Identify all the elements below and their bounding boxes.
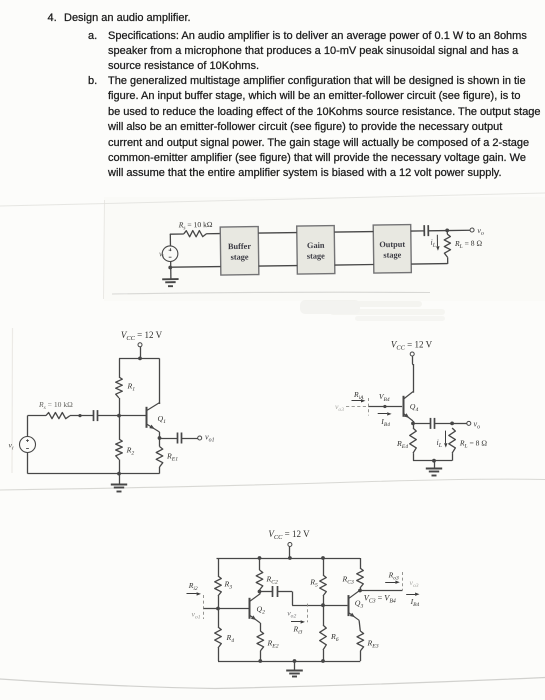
svg-text:Q3: Q3 [355, 599, 364, 610]
svg-text:vo3: vo3 [335, 402, 344, 413]
svg-text:Ri3: Ri3 [293, 625, 303, 636]
svg-text:R2: R2 [126, 446, 135, 457]
svg-text:R5: R5 [309, 578, 318, 589]
svg-text:stage: stage [307, 251, 325, 260]
svg-text:VCC = 12 V: VCC = 12 V [391, 339, 433, 351]
svg-text:RE4: RE4 [396, 439, 408, 450]
svg-text:RE3: RE3 [367, 639, 379, 650]
svg-text:vo1: vo1 [205, 433, 215, 444]
svg-text:VC3 = VB4: VC3 = VB4 [364, 593, 396, 604]
svg-text:RL = 8 Ω: RL = 8 Ω [459, 438, 487, 449]
svg-text:Ri2: Ri2 [188, 581, 198, 592]
svg-text:RC2: RC2 [266, 575, 279, 586]
svg-text:IB4: IB4 [380, 417, 390, 428]
svg-text:VB4: VB4 [379, 392, 390, 403]
svg-text:R6: R6 [330, 632, 339, 643]
svg-text:stage: stage [231, 252, 249, 261]
svg-text:RiA: RiA [353, 390, 364, 401]
svg-text:vo: vo [474, 419, 481, 430]
svg-text:RE2: RE2 [267, 639, 279, 650]
svg-text:Q1: Q1 [158, 414, 167, 425]
svg-text:Output: Output [379, 240, 405, 249]
svg-text:Rs = 10 kΩ: Rs = 10 kΩ [38, 400, 73, 411]
svg-text:R3: R3 [224, 580, 233, 591]
svg-text:vi: vi [8, 441, 13, 452]
svg-text:IB4: IB4 [410, 597, 420, 608]
svg-text:Gain: Gain [307, 241, 325, 250]
svg-text:RC3: RC3 [342, 575, 355, 586]
svg-text:vo3: vo3 [410, 578, 419, 589]
svg-text:vo2: vo2 [287, 608, 296, 619]
svg-text:Ro3: Ro3 [388, 570, 399, 581]
svg-text:iL: iL [437, 438, 442, 449]
svg-text:Buffer: Buffer [228, 242, 251, 251]
svg-text:VCC = 12 V: VCC = 12 V [121, 330, 163, 342]
svg-text:Q2: Q2 [257, 604, 266, 615]
svg-text:R1: R1 [127, 381, 136, 392]
svg-text:R4: R4 [226, 633, 235, 644]
svg-text:RE1: RE1 [166, 452, 178, 463]
svg-text:VCC = 12 V: VCC = 12 V [268, 529, 310, 541]
svg-text:vo1: vo1 [192, 609, 201, 620]
svg-text:stage: stage [383, 250, 401, 259]
svg-text:Q4: Q4 [410, 402, 419, 413]
